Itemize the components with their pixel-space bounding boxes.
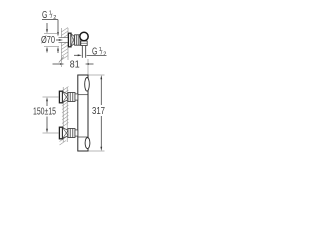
svg-text:2: 2 [53, 15, 56, 21]
svg-text:81: 81 [70, 59, 80, 70]
svg-text:150±15: 150±15 [33, 106, 56, 117]
svg-text:Ø70: Ø70 [41, 35, 55, 46]
svg-text:2: 2 [103, 52, 106, 58]
svg-text:317: 317 [92, 105, 105, 117]
svg-text:G: G [92, 47, 97, 58]
